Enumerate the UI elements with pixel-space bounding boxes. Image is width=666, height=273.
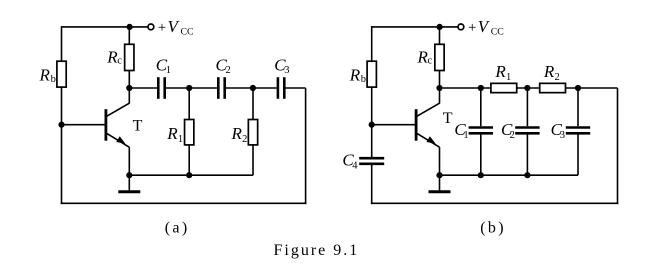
svg-text:1: 1 — [463, 130, 468, 141]
label C1 (b) — [454, 120, 468, 141]
node: collector dot (a) — [126, 85, 132, 91]
label Rb (b) — [349, 65, 366, 85]
label C3 (a) — [274, 55, 289, 76]
wire: emitter row (a) — [129, 174, 253, 176]
resistor Rc (a) — [125, 44, 134, 70]
transistor T (b) — [416, 103, 439, 147]
node: R1 bottom dot (a) — [186, 172, 192, 178]
wire: left vertical upper (a) — [61, 26, 63, 61]
node: base junction dot (a) — [58, 122, 64, 128]
capacitor C2 (b) — [515, 128, 539, 134]
resistor R2 (a) — [248, 120, 257, 145]
wire: C2 to C3 (a) — [226, 87, 277, 89]
capacitor C2 (a) — [218, 77, 224, 99]
svg-text:R: R — [166, 124, 178, 143]
wire: R2 to right vertical (b) — [566, 87, 618, 89]
wire: C4 to bottom rail (b) — [371, 165, 373, 204]
svg-text:+: + — [468, 20, 476, 36]
label R2 (a) — [231, 124, 248, 145]
wire: bottom rail (b) — [371, 202, 618, 204]
transistor T (a) — [106, 103, 129, 147]
svg-text:T: T — [443, 110, 453, 127]
svg-text:R: R — [231, 124, 243, 143]
wire: right vertical (a) — [305, 88, 307, 204]
svg-text:T: T — [133, 118, 143, 135]
svg-text:(a): (a) — [165, 219, 190, 236]
wire: C2 top lead (b) — [526, 88, 528, 126]
node: C1 bottom dot (b) — [478, 172, 484, 178]
node: emitter dot (a) — [126, 172, 132, 178]
wire: bottom rail (a) — [61, 202, 307, 204]
svg-text:2: 2 — [555, 72, 560, 83]
wire: ground row (b) — [440, 174, 579, 176]
wire: R1 top lead (a) — [188, 88, 190, 120]
svg-text:3: 3 — [284, 65, 289, 76]
svg-text:3: 3 — [560, 130, 565, 141]
resistor Rc (b) — [435, 44, 444, 70]
node: emitter dot (b) — [436, 172, 442, 178]
label +Vcc (a) — [158, 17, 194, 38]
svg-text:1: 1 — [506, 72, 511, 83]
resistor R1 (a) — [185, 120, 194, 145]
wire: left vertical Rb to C4 (b) — [371, 87, 373, 157]
wire: Rc top to rail (a) — [128, 27, 130, 44]
resistor Rb (b) — [367, 61, 376, 87]
svg-text:b: b — [361, 74, 366, 85]
wire: C1 bottom lead (b) — [480, 134, 482, 175]
capacitor C1 (b) — [469, 128, 493, 134]
svg-text:b: b — [51, 74, 56, 85]
Vcc terminal (a) — [148, 24, 154, 30]
capacitor C3 (b) — [566, 128, 590, 134]
label Rb (a) — [39, 65, 56, 85]
wire: R2 top lead (a) — [252, 88, 254, 120]
wire: left vertical upper (b) — [371, 26, 373, 61]
wire: collector vertical to Rc (b) — [439, 71, 441, 104]
svg-text:2: 2 — [510, 130, 515, 141]
svg-text:R: R — [494, 62, 506, 81]
wire: top rail (b) — [372, 26, 459, 28]
node: base junction dot (b) — [369, 122, 375, 128]
label +Vcc (b) — [468, 17, 504, 38]
svg-text:R: R — [543, 62, 555, 81]
wire: base (a) — [62, 124, 106, 126]
svg-text:c: c — [428, 56, 433, 67]
svg-text:Figure 9.1: Figure 9.1 — [274, 242, 360, 259]
svg-text:V: V — [478, 17, 491, 36]
junction dot: Vcc node (b) — [437, 24, 443, 30]
label C3 (b) — [551, 120, 565, 141]
junction dot: Vcc node (a) — [127, 24, 133, 30]
wire: R1 bottom lead (a) — [188, 145, 190, 175]
wire: C2 bottom lead (b) — [526, 134, 528, 175]
node A1 dot (a) — [186, 85, 192, 91]
label C1 (a) — [156, 55, 171, 76]
wire: collector node to R1 (b) — [440, 87, 491, 89]
wire: C3 to right vertical (a) — [285, 87, 305, 89]
resistor Rb (a) — [57, 61, 66, 87]
svg-text:CC: CC — [491, 27, 504, 38]
svg-text:+: + — [158, 20, 166, 36]
svg-text:1: 1 — [166, 65, 171, 76]
node A2 dot (a) — [250, 85, 256, 91]
node: C1 top dot (b) — [478, 85, 484, 91]
wire: emitter vertical (a) — [128, 147, 130, 175]
wire: R2 bottom lead (a) — [252, 145, 254, 175]
wire: R1 to R2 (b) — [517, 87, 540, 89]
resistor R2 (b) — [540, 83, 566, 92]
wire: right vertical (b) — [617, 88, 619, 204]
node: C2 bottom dot (b) — [524, 172, 530, 178]
wire: base (b) — [372, 124, 416, 126]
node: C2 top dot (b) — [524, 85, 530, 91]
wire: C3 top lead (b) — [577, 88, 579, 126]
label C2 (b) — [501, 120, 515, 141]
wire: left vertical lower (a) — [61, 87, 63, 204]
svg-text:2: 2 — [226, 65, 231, 76]
label R1 (a) — [166, 124, 183, 145]
svg-text:R: R — [349, 65, 361, 84]
svg-text:V: V — [168, 17, 181, 36]
capacitor C1 (a) — [158, 77, 164, 99]
ground (a) — [118, 175, 140, 192]
resistor R1 (b) — [491, 83, 517, 92]
svg-text:R: R — [39, 65, 51, 84]
wire: collector node to C1 (a) — [129, 87, 157, 89]
svg-text:2: 2 — [242, 134, 247, 145]
wire: collector vertical to Rc (a) — [128, 71, 130, 104]
label Rc (b) — [417, 47, 433, 66]
wire: top rail (a) — [62, 26, 149, 28]
svg-text:(b): (b) — [480, 219, 506, 236]
svg-text:4: 4 — [352, 161, 358, 172]
label R2 (b) — [543, 62, 560, 83]
label R1 (b) — [494, 62, 511, 83]
wire: emitter vertical (b) — [439, 147, 441, 175]
svg-text:CC: CC — [181, 27, 194, 38]
svg-text:c: c — [117, 56, 122, 67]
wire: C1 to C2 (a) — [166, 87, 217, 89]
node: collector dot (b) — [436, 85, 442, 91]
node: C3 top dot (b) — [575, 85, 581, 91]
Vcc terminal (b) — [458, 24, 464, 30]
capacitor C3 (a) — [278, 77, 284, 99]
svg-text:1: 1 — [178, 134, 183, 145]
ground (b) — [429, 175, 451, 192]
capacitor C4 (b) — [359, 158, 384, 164]
label C4 (b) — [342, 150, 358, 171]
label Rc (a) — [106, 47, 122, 66]
wire: C3 bottom lead (b) — [577, 134, 579, 175]
wire: Rc top to rail (b) — [439, 27, 441, 44]
wire: C1 top lead (b) — [480, 88, 482, 126]
label C2 (a) — [216, 55, 231, 76]
